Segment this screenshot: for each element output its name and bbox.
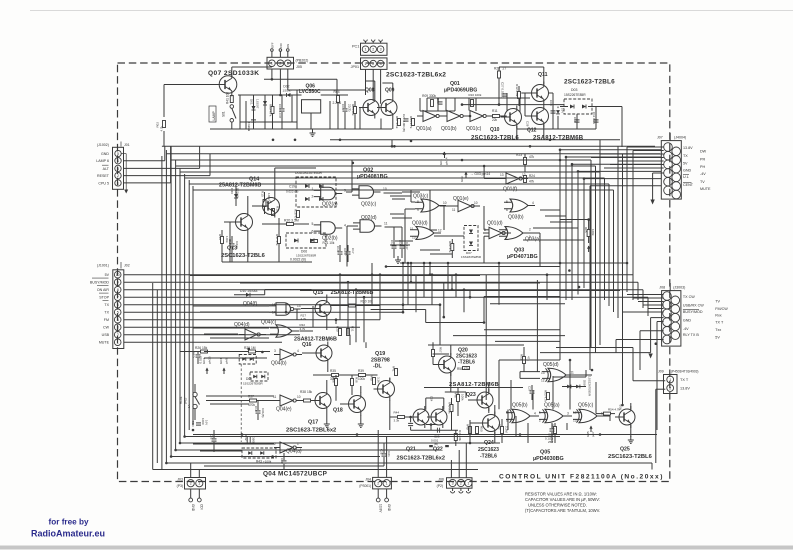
cap C19	[256, 410, 261, 412]
svg-text:J06: J06	[438, 478, 444, 482]
wire vbus x166.4	[165, 150, 167, 463]
svg-text:→ G03 p/n14: → G03 p/n14	[470, 172, 490, 176]
svg-text:1: 1	[271, 62, 273, 66]
wire hbus y434.5	[193, 434, 657, 436]
junction dot	[546, 273, 549, 276]
svg-text:R13: R13	[218, 234, 222, 240]
svg-text:47k: 47k	[527, 356, 531, 361]
svg-text:5V: 5V	[715, 336, 720, 340]
junction dot	[429, 262, 432, 265]
svg-text:R25: R25	[584, 227, 588, 233]
junction dot	[559, 262, 562, 265]
resistor R05	[354, 107, 357, 114]
svg-text:R22 47k: R22 47k	[448, 241, 452, 253]
svg-text:CAPACITOR VALUES ARE IN µF, 50: CAPACITOR VALUES ARE IN µF, 50WV:	[525, 497, 600, 502]
wire h y328	[193, 327, 269, 329]
junction dot	[587, 218, 590, 221]
nand gate Q04(f)	[276, 303, 291, 316]
wire v x340	[339, 275, 341, 320]
svg-text:1: 1	[297, 442, 299, 446]
svg-text:RL01: RL01	[179, 396, 183, 404]
or gate Q03(b)	[510, 199, 528, 212]
inverter Q01(c)	[470, 111, 483, 122]
junction dot	[391, 145, 394, 148]
diode D01 1SS97	[253, 95, 255, 129]
J02 pin 3 CW	[114, 324, 121, 331]
svg-text:6: 6	[506, 208, 508, 212]
J02 pin 9 BUSY/MOD	[114, 279, 121, 286]
svg-text:Q01(b): Q01(b)	[441, 126, 457, 132]
svg-text:16V: 16V	[205, 420, 209, 425]
junction dot	[559, 149, 562, 152]
svg-text:Q02(c): Q02(c)	[361, 202, 377, 208]
wire vbus x600	[599, 140, 601, 345]
wire staircase	[426, 322, 484, 324]
resistor R20	[287, 223, 294, 226]
svg-text:C27 0.001(B): C27 0.001(B)	[402, 114, 406, 132]
svg-text:15S226TE85R: 15S226TE85R	[301, 171, 323, 175]
cap C11	[595, 107, 597, 130]
ground q06	[312, 129, 314, 133]
junction dot	[402, 311, 405, 314]
svg-text:RLY TX B: RLY TX B	[683, 333, 700, 337]
svg-text:C19: C19	[254, 406, 258, 412]
svg-text:1SS97: 1SS97	[256, 99, 260, 109]
wire h y241	[395, 240, 413, 242]
svg-text:D09: D09	[583, 380, 587, 386]
J08 pin	[663, 327, 672, 336]
svg-text:PR: PR	[700, 158, 705, 162]
svg-text:C19: C19	[289, 185, 295, 189]
svg-text:GND: GND	[387, 504, 391, 512]
cap C09	[552, 93, 554, 129]
svg-text:12: 12	[573, 411, 577, 415]
svg-text:2: 2	[190, 482, 192, 486]
svg-text:6: 6	[117, 303, 119, 307]
wire J07 feed y150.5	[633, 150, 664, 152]
wire h y218	[392, 217, 412, 219]
svg-text:GND: GND	[683, 318, 692, 322]
svg-text:Q08: Q08	[365, 88, 375, 94]
junction dot	[183, 435, 186, 438]
svg-text:10: 10	[383, 187, 387, 191]
svg-text:J08: J08	[659, 285, 665, 289]
overline UL CENT	[683, 174, 689, 176]
wires J09 feeds	[556, 347, 633, 349]
junction dot	[356, 433, 359, 436]
svg-text:8: 8	[417, 200, 419, 204]
wires Q17 Q18 Q19	[326, 380, 328, 390]
resistor R18	[297, 211, 300, 218]
wire verticals center	[391, 140, 393, 147]
resistor R26	[201, 350, 208, 353]
cap C27b	[530, 390, 535, 392]
svg-text:R24: R24	[529, 174, 535, 178]
svg-text:2SA812-T2BM6B: 2SA812-T2BM6B	[533, 136, 584, 142]
ground arrow below J07	[652, 173, 654, 200]
svg-text:1: 1	[198, 482, 200, 486]
svg-text:(P2): (P2)	[437, 484, 443, 488]
svg-text:11: 11	[410, 227, 414, 231]
wire vbus x618	[617, 146, 619, 318]
connector J05 (PB202)	[267, 57, 294, 69]
junction dot	[568, 269, 571, 272]
svg-text:13: 13	[541, 371, 545, 375]
wire staircase nets mid-right	[484, 296, 560, 298]
svg-text:Q22: Q22	[433, 447, 443, 453]
svg-text:C31: C31	[191, 421, 195, 427]
svg-text:R18 47k: R18 47k	[294, 209, 298, 221]
svg-text:1SS226TE85R: 1SS226TE85R	[588, 376, 592, 397]
svg-text:CONTROL UNIT F2821100A (No.: CONTROL UNIT F2821100A (No.20xx)	[499, 473, 664, 480]
junction dot	[170, 455, 173, 458]
svg-text:Q21: Q21	[406, 447, 416, 453]
svg-text:R36: R36	[332, 377, 336, 383]
svg-text:R38: R38	[300, 390, 306, 394]
svg-text:(J1001): (J1001)	[97, 264, 109, 268]
svg-text:15: 15	[272, 303, 276, 307]
svg-text:Q24: Q24	[484, 440, 494, 446]
diode group D08	[239, 355, 256, 365]
wire bus middle extra	[387, 266, 560, 268]
wire v x516	[515, 416, 517, 437]
inverter Q04(d)	[245, 329, 257, 340]
svg-text:J01: J01	[124, 143, 130, 147]
wire v x567	[566, 423, 568, 430]
wires JP01 pins down	[365, 69, 367, 95]
wire v x416	[415, 275, 417, 313]
junction dot	[469, 442, 472, 445]
svg-text:R05 20k: R05 20k	[351, 104, 355, 116]
svg-text:C28: C28	[526, 121, 530, 127]
wire hbus y469.5	[153, 469, 478, 471]
svg-text:2SC1623-T2BL6: 2SC1623-T2BL6	[608, 454, 653, 460]
junction dot	[355, 288, 358, 291]
wires Q06 cluster rails	[238, 94, 302, 96]
wire v x596	[595, 382, 597, 414]
resistor R41	[230, 96, 233, 103]
ground Q18	[360, 420, 362, 424]
svg-text:2SC1623-T2BL6: 2SC1623-T2BL6	[221, 253, 266, 259]
zener D near Q12	[556, 110, 560, 114]
svg-text:µPD4081BG: µPD4081BG	[357, 174, 388, 180]
svg-text:4: 4	[534, 412, 536, 416]
wire staircase	[453, 335, 565, 337]
svg-text:Q02(d): Q02(d)	[361, 215, 377, 221]
svg-text:47k: 47k	[529, 180, 535, 184]
wire hbus y274.7	[124, 274, 633, 276]
svg-text:ON AIR: ON AIR	[97, 288, 110, 292]
wire hbus y456.5	[171, 456, 380, 458]
svg-text:C24: C24	[430, 396, 434, 402]
junction dot	[463, 288, 466, 291]
svg-text:Q16: Q16	[302, 342, 312, 348]
svg-text:R17 47k: R17 47k	[275, 234, 279, 246]
junction dot	[402, 262, 405, 265]
cap C14 near Q02	[392, 245, 397, 247]
svg-text:CPU 5: CPU 5	[98, 181, 109, 185]
resistor R16	[272, 209, 275, 216]
junction dot	[571, 163, 574, 166]
ground rail Q13	[222, 261, 312, 263]
wire J07 feed y168	[604, 167, 664, 169]
J02 pin 4 FM	[114, 316, 121, 323]
resistor R49 R50	[469, 427, 472, 434]
wire v x448	[447, 263, 449, 290]
svg-text:J02: J02	[124, 264, 130, 268]
scan artifact bottom band	[0, 546, 793, 550]
J01 pin 3 ALT	[115, 165, 121, 171]
wire v x507	[506, 93, 508, 111]
svg-text:C18: C18	[192, 352, 196, 358]
resistor R28b	[349, 304, 356, 307]
svg-text:R40: R40	[370, 375, 374, 381]
or gate Q03(d)	[416, 227, 434, 240]
J01 pin 2 RESET	[115, 172, 121, 178]
cap C22	[382, 453, 387, 455]
wire h y250	[420, 249, 440, 251]
wire v x464	[463, 290, 465, 313]
junction dot	[443, 316, 446, 319]
wire staircase	[484, 329, 560, 331]
cap C04	[343, 108, 348, 110]
wire v x297	[296, 90, 298, 129]
resistor R35	[332, 374, 339, 377]
svg-text:G05: G05	[586, 431, 590, 437]
wire bus left extra vertical	[152, 283, 154, 470]
svg-text:11: 11	[571, 371, 575, 375]
svg-text:R85 4.7k: R85 4.7k	[409, 116, 413, 129]
svg-text:10: 10	[443, 201, 447, 205]
svg-text:10: 10	[474, 201, 478, 205]
cap C18	[196, 354, 201, 356]
junction dot	[272, 139, 275, 142]
svg-text:1: 1	[669, 378, 671, 382]
connector J05 stubs	[271, 52, 273, 58]
svg-text:14: 14	[272, 311, 276, 315]
wires Q05 row	[532, 415, 539, 417]
svg-text:µPD4071BG: µPD4071BG	[507, 254, 538, 260]
inverter Q01(d)	[489, 227, 502, 239]
cap C31	[196, 422, 201, 424]
J05 pin 1	[269, 60, 276, 67]
junction dot	[439, 303, 442, 306]
scan artifact top line	[30, 10, 793, 12]
svg-text:0.047: 0.047	[235, 241, 239, 249]
svg-text:Q04(e): Q04(e)	[276, 407, 292, 413]
wire top cluster horizontals	[240, 121, 297, 123]
svg-text:2: 2	[460, 481, 462, 485]
wire h y466	[204, 465, 384, 467]
wire hbus y190.0	[193, 189, 614, 191]
svg-text:3: 3	[117, 167, 119, 171]
junction dot	[393, 145, 396, 148]
svg-text:12: 12	[541, 379, 545, 383]
J07 pin	[672, 164, 681, 173]
svg-text:R39: R39	[358, 369, 364, 373]
wire vbus x591	[590, 160, 592, 348]
svg-text:12: 12	[438, 229, 442, 233]
svg-text:D01: D01	[250, 99, 254, 105]
overline BUSY/MOD	[683, 309, 699, 311]
wire h y216	[545, 215, 566, 217]
cap C26	[550, 428, 555, 430]
transistor Q11	[532, 85, 549, 102]
svg-text:1: 1	[365, 48, 367, 52]
resistor R29	[249, 350, 256, 353]
J01 pin 5 GND	[115, 150, 121, 156]
inverter Q04(a)	[280, 442, 293, 453]
svg-text:UNLESS OTHERWISE NOTED.: UNLESS OTHERWISE NOTED.	[528, 503, 587, 508]
svg-text:R31: R31	[351, 326, 355, 332]
J07 pin	[664, 143, 673, 152]
svg-text:330k: 330k	[429, 94, 436, 98]
J08 pin	[663, 292, 672, 301]
svg-text:Q10: Q10	[490, 127, 500, 133]
wire h y228	[533, 227, 578, 229]
cap C12	[230, 243, 235, 245]
ground rail under Q10-Q12	[517, 128, 596, 130]
svg-text:7: 7	[117, 296, 119, 300]
svg-text:8: 8	[117, 288, 119, 292]
J08 pin	[671, 331, 680, 340]
wire J08 feed y301.5	[638, 301, 664, 303]
svg-text:2: 2	[274, 442, 276, 446]
junction dot	[483, 165, 486, 168]
diode D02 1SS97	[287, 93, 291, 97]
svg-text:Q01(f): Q01(f)	[503, 187, 518, 193]
svg-text:1: 1	[312, 187, 314, 191]
svg-text:MUTE: MUTE	[99, 341, 110, 345]
svg-text:USB/RX CW: USB/RX CW	[683, 304, 704, 308]
svg-text:DW: DW	[700, 149, 707, 153]
wire J07 feed y157.5	[591, 157, 664, 159]
svg-text:(T)CAPACITORS ARE TANTULM, 10W: (T)CAPACITORS ARE TANTULM, 10WV.	[525, 508, 600, 513]
wires Q08 Q09 cluster	[374, 81, 376, 97]
resistor R40	[373, 378, 376, 385]
junction dot	[192, 429, 195, 432]
svg-text:G03: G03	[460, 176, 464, 182]
rotated net labels G01 G03	[444, 152, 446, 158]
wire hbus y342.2	[124, 341, 282, 343]
svg-text:R09: R09	[422, 94, 428, 98]
svg-text:100k: 100k	[461, 394, 465, 401]
svg-text:Q05(d): Q05(d)	[543, 362, 559, 368]
svg-text:R29 1M: R29 1M	[244, 346, 256, 350]
resistor R24	[524, 176, 527, 183]
svg-text:(J4004): (J4004)	[674, 135, 686, 139]
junction dot	[371, 273, 374, 276]
J02 pin 1 MUTE	[114, 339, 121, 346]
junction dot	[519, 433, 522, 436]
wires Q15	[326, 295, 328, 298]
wire hbus y178.0	[185, 177, 605, 179]
svg-text:C11 0.01: C11 0.01	[592, 112, 596, 124]
J08 pin	[671, 313, 680, 322]
wire v x372	[371, 263, 373, 305]
wire v x443.8	[443, 283, 445, 318]
svg-text:100k: 100k	[265, 200, 272, 204]
junction dot	[655, 342, 658, 345]
svg-text:1: 1	[117, 341, 119, 345]
J08 pin	[671, 296, 680, 305]
svg-text:C10: C10	[573, 117, 577, 123]
J07 pin	[672, 182, 681, 191]
svg-text:Q25: Q25	[620, 447, 630, 453]
junction dot	[247, 348, 250, 351]
wire hbus y436.5	[185, 436, 560, 438]
diode D10	[234, 294, 265, 296]
junction dot	[431, 273, 434, 276]
svg-text:Q01(d): Q01(d)	[487, 221, 503, 227]
svg-text:(J1002): (J1002)	[97, 143, 109, 147]
wire hbus y172.0	[180, 171, 600, 173]
svg-text:R20 10k: R20 10k	[361, 300, 374, 304]
wire hbus y282.2	[124, 281, 638, 283]
svg-text:Q05(b): Q05(b)	[512, 403, 528, 409]
wire hbus y160.0	[171, 159, 591, 161]
arrow marks	[588, 246, 590, 252]
transistor Q12	[532, 108, 549, 125]
svg-text:R46 10k: R46 10k	[458, 430, 462, 441]
svg-text:R41: R41	[392, 366, 396, 372]
wire v x420	[419, 98, 421, 111]
svg-text:R48: R48	[454, 392, 458, 398]
svg-text:BUSY/MOD: BUSY/MOD	[683, 310, 703, 314]
svg-text:0.047: 0.047	[405, 242, 409, 250]
wire fan J07 vertical joins	[559, 150, 561, 160]
wire h y196	[390, 195, 411, 197]
svg-text:TV: TV	[715, 299, 720, 303]
svg-text:S01: S01	[222, 111, 226, 117]
connector PC1 stubs	[364, 40, 368, 42]
inverter Q01(f)	[506, 173, 519, 184]
svg-text:15k: 15k	[307, 390, 313, 394]
wire hbus y289.7	[124, 289, 643, 291]
svg-text:5: 5	[312, 222, 314, 226]
svg-text:C27: C27	[528, 386, 532, 392]
svg-text:ON: ON	[286, 44, 290, 48]
svg-text:Q01: Q01	[450, 81, 460, 87]
cap C21 near J03	[212, 438, 217, 440]
svg-text:4: 4	[117, 159, 119, 163]
wires Q21 Q22	[425, 398, 427, 410]
junction dot	[410, 262, 413, 265]
svg-text:3: 3	[380, 48, 382, 52]
junction dot	[498, 262, 501, 265]
resistor R02	[163, 121, 166, 128]
svg-text:2.2kΩ: 2.2kΩ	[333, 101, 342, 105]
svg-text:TX: TX	[683, 154, 688, 158]
svg-text:Q03: Q03	[514, 248, 524, 254]
svg-text:µPD4030BG: µPD4030BG	[533, 456, 564, 462]
junction dot	[410, 281, 413, 284]
wire R25 rotated label	[587, 230, 590, 237]
svg-text:22(T): 22(T)	[348, 104, 352, 111]
J08 pin	[663, 335, 672, 344]
wires Q10-Q12	[516, 126, 518, 140]
svg-text:ALT: ALT	[103, 167, 110, 171]
wire v x456	[455, 275, 457, 298]
wires Q13 Q14 cluster	[274, 168, 276, 195]
wire h y210	[540, 209, 560, 211]
svg-text:R42: R42	[244, 435, 248, 441]
wire hbus y312.2	[124, 311, 402, 313]
svg-text:CW: CW	[103, 326, 110, 330]
svg-text:Q03(d): Q03(d)	[412, 221, 428, 227]
junction dot	[429, 273, 432, 276]
wire Q01c to Q10	[486, 115, 493, 117]
